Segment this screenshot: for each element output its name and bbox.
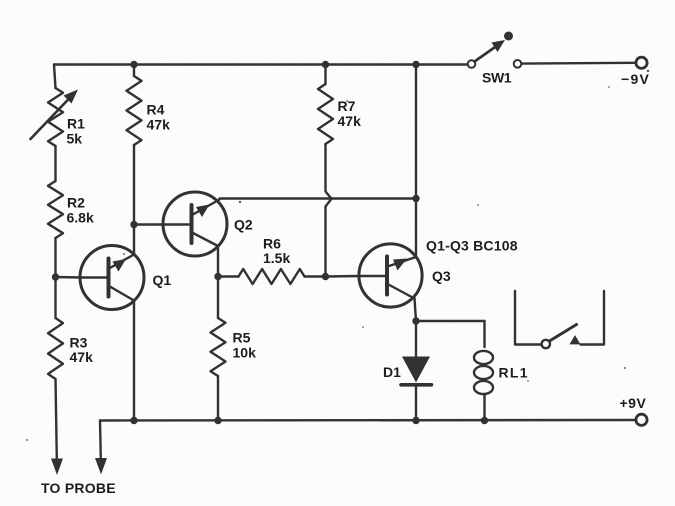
wire node C to R5 <box>217 277 219 319</box>
inductor RL1 (relay coil) <box>474 321 493 421</box>
resistor R4 <box>127 76 142 145</box>
wire R7 down with hop over horizontal wire <box>326 144 332 277</box>
transistor Q1 <box>80 246 144 310</box>
wire R5 to bottom rail <box>217 376 219 421</box>
wire node G to D1 <box>415 321 417 357</box>
wire node A to R3 <box>54 277 56 318</box>
wire top rail <box>54 63 468 65</box>
wire top to R7 <box>324 65 326 85</box>
svg-text:SW1: SW1 <box>482 70 512 86</box>
svg-text:5k: 5k <box>67 131 83 147</box>
node bottom rail Q1 emitter <box>130 417 137 424</box>
wire top to R4 <box>133 65 135 77</box>
node bottom rail R5 <box>214 417 221 424</box>
R1 arrow <box>31 90 79 140</box>
node E junction top right <box>412 61 419 68</box>
terminal -9V <box>636 57 647 68</box>
svg-text:D1: D1 <box>383 364 401 380</box>
relay contact RL1/1 <box>515 291 604 348</box>
wire Q1 emitter down <box>133 301 135 421</box>
node R7 top junction <box>322 61 329 68</box>
wire Q2 emitter to right (horizontal) <box>220 197 417 199</box>
wire probe stub <box>99 421 102 460</box>
wire left rail top segment <box>54 65 56 89</box>
svg-text:R5: R5 <box>233 330 251 346</box>
svg-text:RL1: RL1 <box>499 365 529 381</box>
node B junction (R4/Q1 collector/Q2 base) <box>130 221 137 228</box>
svg-text:R2: R2 <box>67 195 85 211</box>
wire Q2 collector down to node C <box>217 246 219 277</box>
svg-text:1.5k: 1.5k <box>263 250 290 266</box>
svg-text:+9V: +9V <box>620 395 647 411</box>
transistor Q3 <box>359 244 422 307</box>
wire node G right to RL1 <box>416 320 485 322</box>
svg-text:−9V: −9V <box>621 71 650 87</box>
svg-text:Q1: Q1 <box>153 272 172 288</box>
node C junction (Q2/R5/R6) <box>214 273 221 280</box>
resistor R5 <box>211 318 226 376</box>
wire R1 to R2 <box>54 146 56 181</box>
svg-text:47k: 47k <box>70 349 94 365</box>
wire R3 down to probe arrow <box>56 379 57 459</box>
node F junction (Q2 emitter wire/Q3 emitter) <box>412 195 419 202</box>
svg-text:R4: R4 <box>147 102 165 118</box>
resistor R2 <box>48 181 63 238</box>
resistor R7 <box>318 84 333 144</box>
transistor Q2 <box>163 192 227 256</box>
wire R2 to node A <box>54 238 56 277</box>
node bottom rail RL1 <box>481 417 488 424</box>
node G junction (Q3/D1/RL1) <box>412 317 419 324</box>
wire R6 to node D <box>305 275 326 277</box>
wire Q2 base <box>134 223 164 225</box>
svg-text:47k: 47k <box>338 113 362 129</box>
wire node D to Q3 base <box>326 275 360 278</box>
svg-text:6.8k: 6.8k <box>67 210 94 226</box>
wire node B down to Q1 collector <box>133 225 135 255</box>
node R4 top junction <box>130 61 137 68</box>
wire node E down to node F <box>415 65 417 199</box>
scan specks <box>26 70 649 441</box>
bottom rail wire <box>100 419 636 422</box>
wire SW1 to -9V terminal <box>522 62 636 65</box>
diode D1 <box>401 357 432 421</box>
node bottom rail D1 <box>412 417 419 424</box>
resistor R3 <box>48 318 63 379</box>
wire node C to R6 <box>218 275 239 277</box>
wire node F down to Q3 <box>415 199 417 258</box>
switch SW1 <box>468 32 522 68</box>
svg-text:Q3: Q3 <box>432 268 451 284</box>
wire R4 to node B <box>133 145 135 225</box>
svg-text:R1: R1 <box>67 116 85 132</box>
wire Q1 base <box>56 276 82 279</box>
svg-text:47k: 47k <box>147 117 171 133</box>
resistor R1 <box>48 88 63 146</box>
node D junction (R6/R7 bottom) <box>322 273 329 280</box>
svg-text:Q2: Q2 <box>234 217 253 233</box>
node A junction (Q1 base) <box>52 273 59 280</box>
resistor R6 <box>239 269 305 284</box>
wire Q3 collector down to node G <box>415 299 417 322</box>
svg-text:10k: 10k <box>233 345 257 361</box>
svg-text:Q1-Q3 BC108: Q1-Q3 BC108 <box>426 238 518 254</box>
terminal +9V <box>636 414 647 425</box>
svg-text:TO PROBE: TO PROBE <box>41 480 116 496</box>
